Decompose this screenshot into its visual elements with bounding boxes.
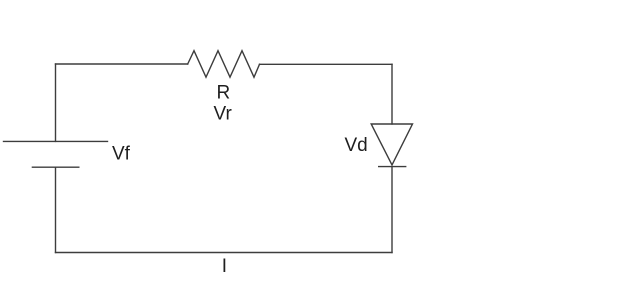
resistor R1 zigzag xyxy=(188,51,260,77)
wire top-right horizontal segment xyxy=(260,63,393,65)
wire top-left horizontal segment xyxy=(56,63,188,65)
battery B1 positive plate (long) xyxy=(4,140,108,142)
battery B1 negative plate (short) xyxy=(32,166,78,168)
svg-text:Vr: Vr xyxy=(214,103,233,124)
diode D1 triangle (anode) xyxy=(371,124,412,165)
wire left vertical upper (top to battery) xyxy=(55,64,57,141)
wire right vertical lower (diode to bottom) xyxy=(391,167,393,253)
diode D1 cathode bar xyxy=(379,166,406,168)
wire left vertical lower (battery to bottom) xyxy=(55,167,57,252)
wire right vertical upper (to diode anode) xyxy=(391,64,393,124)
svg-text:Vf: Vf xyxy=(112,144,131,165)
svg-text:Vd: Vd xyxy=(345,135,368,156)
svg-text:I: I xyxy=(222,256,227,277)
wire bottom horizontal xyxy=(56,252,393,254)
svg-text:R: R xyxy=(217,82,231,103)
